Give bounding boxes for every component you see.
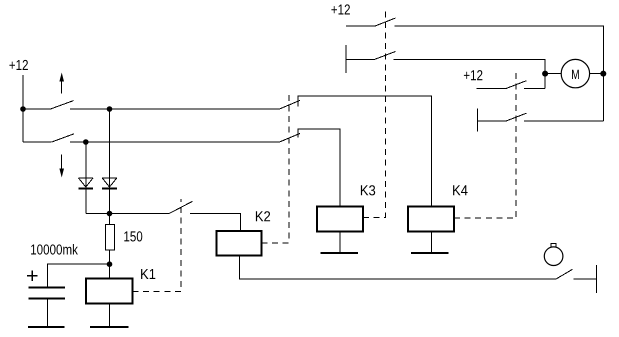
switch K3 contact b blade: [375, 51, 396, 59]
relay coil K2: [217, 231, 262, 256]
node motor right: [600, 71, 606, 77]
dashed link K3 to its contacts: [363, 8, 386, 217]
node rail2 diode branch junction: [83, 139, 89, 145]
wire rail 1 left segment: [23, 108, 51, 110]
terminal bar bell switch: [595, 265, 597, 293]
switch bottom (bell) blade: [556, 269, 573, 279]
wire motor right stub: [590, 73, 604, 75]
ground bar K4: [411, 252, 449, 254]
wire K3 bottom lead: [339, 232, 341, 253]
wire below VD1 to node: [86, 213, 110, 215]
arrow up (raise command): [59, 73, 64, 94]
switch S2 blade: [52, 134, 74, 142]
wire K3 contact a to motor right: [394, 26, 603, 121]
relay coil K1: [86, 278, 133, 303]
label +12 (reverse supply): [464, 70, 483, 80]
diode VD1: [79, 178, 94, 189]
wire K4 contact a left: [476, 88, 506, 90]
bell button circle: [544, 247, 563, 266]
wire K3 contact a left: [346, 25, 375, 27]
wire K3 contact b left: [346, 58, 375, 60]
wire K1 contact to K2 coil: [190, 214, 241, 232]
relay coil K4: [408, 206, 454, 231]
label 150: [124, 231, 142, 241]
switch K2 contact a blade: [280, 100, 301, 109]
wire capacitor bottom lead: [47, 298, 49, 327]
dashed link K2 to its contacts: [262, 93, 290, 243]
arrow down (lower command): [59, 155, 64, 178]
diode VD1 branch wire: [85, 142, 87, 214]
wire rail 2 right segment: [70, 141, 280, 143]
wire K2 contact b to K3 coil: [298, 129, 340, 206]
label 10000mk: [31, 244, 78, 255]
wire bell switch right: [573, 278, 596, 280]
label K3: [361, 185, 375, 195]
switch K1 contact blade: [169, 201, 192, 213]
node rail1 diode branch junction: [107, 106, 113, 112]
wire K2 contact a to K4 coil: [298, 96, 432, 206]
switch K2 contact b blade: [280, 133, 301, 142]
label M: [572, 70, 579, 79]
ground bar K3: [320, 252, 358, 254]
node motor left: [542, 71, 548, 77]
switch S1 blade (up position): [51, 101, 74, 109]
node capacitor junction: [107, 261, 113, 267]
diode VD2: [102, 178, 117, 189]
wire +12 feed vertical and left rail corner: [22, 75, 24, 142]
terminal bar K3 contact b: [345, 45, 347, 73]
ground bar capacitor: [28, 326, 65, 328]
capacitor C1 plus sign: [27, 270, 38, 281]
label K2: [256, 211, 270, 221]
wire K1 bottom lead: [109, 303, 111, 327]
ground bar K1: [90, 326, 129, 328]
wire motor left stub: [545, 73, 561, 75]
wire cap node to capacitor: [48, 264, 110, 287]
wire K4 bottom lead: [431, 232, 433, 253]
dashed link K1 to its contact: [133, 199, 182, 292]
wire rail 2 left segment: [23, 141, 52, 143]
wire K3 contact b to motor left: [394, 59, 545, 88]
label +12 (motor supply top): [331, 4, 350, 14]
wire K4 contact a to motor left node: [524, 88, 545, 90]
terminal bar K4 contact b: [477, 109, 479, 132]
wire K4 contact b to motor right node: [524, 120, 603, 122]
capacitor C1 plates: [29, 287, 65, 298]
diode VD2 branch wire: [109, 109, 111, 224]
dashed link K4 to its contacts: [454, 70, 516, 218]
wire K4 contact b left: [478, 120, 507, 122]
switch K4 contact a blade: [506, 81, 526, 89]
wire resistor bottom to cap node: [109, 250, 111, 278]
label K4: [453, 185, 468, 195]
bell button nub: [551, 244, 556, 248]
wire rail 1 right segment: [70, 108, 280, 110]
resistor R1 body: [106, 225, 115, 251]
wire K2 bottom to common bottom line: [240, 256, 556, 280]
node resistor top junction: [107, 211, 113, 217]
label +12 (top left supply): [9, 60, 28, 70]
wire node to K1 contact: [110, 213, 170, 215]
motor M1 circle: [561, 59, 589, 87]
switch K3 contact a blade: [375, 18, 395, 26]
node rail1 left junction: [20, 106, 26, 112]
label K1: [141, 269, 155, 279]
relay coil K3: [317, 206, 363, 231]
switch K4 contact b blade: [506, 113, 526, 121]
